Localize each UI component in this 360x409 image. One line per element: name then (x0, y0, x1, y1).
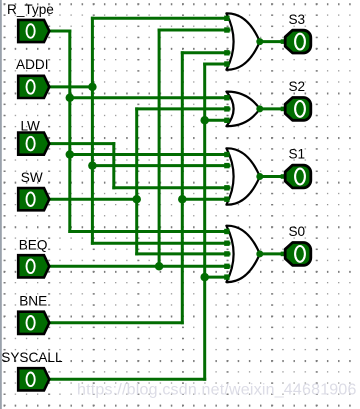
wire net BNE vertical (181, 53, 184, 323)
wire from SYSCALL pin (49, 378, 205, 381)
wire BNE to S3 input 3 (182, 51, 229, 54)
connection point gate S3 input 3 (224, 50, 229, 55)
connection point gate S1 input 1 (224, 152, 229, 157)
junction SW tap (132, 195, 141, 204)
wire net ADDI vertical (91, 18, 94, 243)
svg-text:S1: S1 (288, 147, 305, 162)
svg-text:S2: S2 (288, 79, 305, 94)
junction gate S2 output (256, 105, 263, 112)
wire from BEQ pin to gate S0 input 4 (49, 265, 229, 268)
value 0 of R_Type (27, 24, 35, 38)
junction R_Type tap to S1 (66, 150, 75, 159)
value 0 of BEQ (27, 260, 35, 274)
connection point gate S3 input 1 (224, 16, 229, 21)
wire net SW vertical (135, 109, 138, 254)
wire from BNE pin (49, 321, 182, 324)
wire R_Type to S0 input 1 (70, 230, 229, 233)
input pin SW (18, 188, 49, 210)
junction ADDI tap to S1 (88, 161, 97, 170)
svg-text:BNE: BNE (19, 293, 47, 308)
or-gate U4 (S0) (226, 226, 259, 282)
wire from LW pin (49, 142, 114, 145)
wire from R_Type pin (49, 30, 70, 33)
connection point pin S3 port (281, 39, 286, 44)
value 0 of S2 (295, 101, 305, 117)
value 0 of LW (27, 137, 35, 151)
input pin BNE (18, 312, 49, 334)
input pin BEQ (18, 255, 49, 277)
wire from ADDI pin (49, 85, 92, 88)
wire net SYSCALL vertical (203, 64, 206, 379)
svg-text:S3: S3 (288, 12, 305, 27)
output pin S0 (285, 243, 311, 266)
value 0 of S1 (295, 169, 305, 185)
wire SYSCALL to S0 input 5 (205, 276, 229, 279)
wire SW to S2 input 2 (137, 107, 229, 110)
input pin R_Type (18, 20, 49, 42)
connection point pin S2 port (281, 107, 286, 112)
wire BNE to S1 input 4 (182, 198, 229, 201)
junction SYSCALL tap to S0 (200, 273, 209, 282)
junction gate S1 output (256, 173, 263, 180)
junction R_Type tap to S2 (66, 93, 75, 102)
junction SYSCALL tap to S2 (200, 116, 209, 125)
connection point gate S2 input 3 (224, 118, 229, 123)
connection point gate S0 input 2 (224, 241, 229, 246)
wire net LW vertical (112, 144, 115, 188)
connection point gate S1 input 2 (224, 163, 229, 168)
junction BNE tap to S1 (178, 195, 187, 204)
wire R_Type to S2 input 1 (70, 96, 229, 99)
junction gate S3 output (256, 38, 263, 45)
connection point gate S2 input 1 (224, 95, 229, 100)
connection point gate S0 input 5 (224, 274, 229, 279)
wire gate S3 output to pin S3 (260, 40, 286, 43)
value 0 of ADDI (27, 80, 35, 94)
wire net R_Type vertical (68, 31, 71, 232)
value 0 of BNE (27, 316, 35, 330)
connection point gate S3 input 2 (224, 27, 229, 32)
junction gate S0 output (256, 250, 263, 257)
svg-text:SW: SW (21, 170, 43, 185)
connection point gate S0 input 4 (224, 264, 229, 269)
input pin ADDI (18, 76, 49, 98)
wire LW to S1 input 3 (114, 186, 229, 189)
or-gate U3 (S1) (226, 148, 259, 204)
junction ADDI tap (88, 83, 97, 92)
junction BEQ tap (155, 262, 164, 271)
or-gate U1 (S3) (226, 13, 259, 69)
wire R_Type to S1 input 1 (70, 153, 229, 156)
input pin LW (18, 133, 49, 155)
wire SYSCALL to S3 input 4 (205, 63, 229, 66)
svg-text:BEQ: BEQ (19, 237, 48, 252)
connection point gate S0 input 1 (224, 229, 229, 234)
canvas left border (0, 0, 2, 409)
wire net BEQ vertical (158, 30, 161, 266)
value 0 of SW (27, 192, 35, 206)
output pin S1 (285, 165, 311, 188)
svg-text:https://blog.csdn.net/weixin_4: https://blog.csdn.net/weixin_44681906 (77, 382, 357, 399)
value 0 of SYSCALL (27, 373, 35, 387)
wire gate S0 output to pin S0 (260, 252, 286, 255)
connection point gate S1 input 3 (224, 185, 229, 190)
value 0 of S0 (295, 246, 305, 262)
connection point gate S1 input 4 (224, 197, 229, 202)
svg-text:LW: LW (21, 118, 41, 133)
wire ADDI to S1 input 2 (92, 164, 229, 167)
wire ADDI to S0 input 2 (92, 242, 229, 245)
value 0 of S3 (295, 34, 305, 50)
wire BEQ to S3 input 2 (159, 29, 229, 32)
input pin SYSCALL (18, 368, 49, 390)
svg-text:R_Type: R_Type (7, 2, 54, 17)
connection point gate S2 input 2 (224, 106, 229, 111)
wire from SW pin (49, 198, 137, 201)
output pin S3 (285, 30, 311, 53)
svg-text:ADDI: ADDI (16, 57, 48, 72)
connection point pin S0 port (281, 252, 286, 257)
wire gate S1 output to pin S1 (260, 175, 286, 178)
wire ADDI to S3 input 1 (92, 17, 229, 20)
connection point pin S1 port (281, 174, 286, 179)
wire SYSCALL to S2 input 3 (205, 119, 229, 122)
connection point gate S0 input 3 (224, 251, 229, 256)
or-gate U2 (S2) (226, 92, 259, 127)
output pin S2 (285, 98, 311, 121)
wire gate S2 output to pin S2 (260, 107, 286, 110)
connection point gate S3 input 4 (224, 61, 229, 66)
wire SW to S0 input 3 (137, 252, 229, 255)
svg-text:SYSCALL: SYSCALL (1, 350, 63, 365)
svg-text:S0: S0 (288, 224, 305, 239)
